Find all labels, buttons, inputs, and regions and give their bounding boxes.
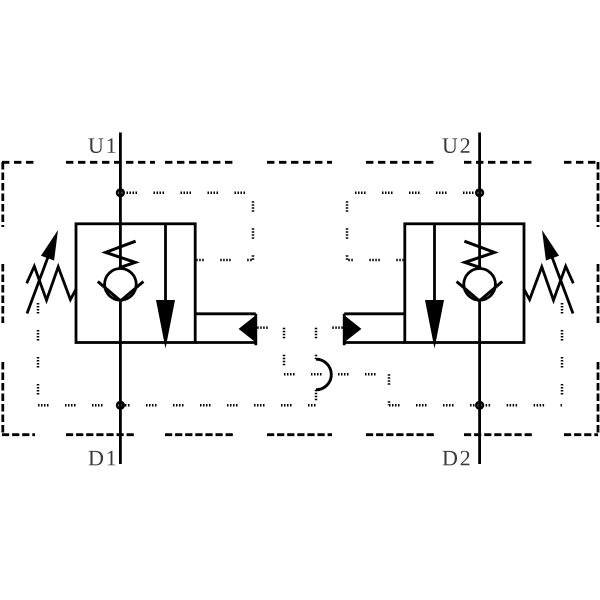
valve V1 body box — [76, 224, 195, 343]
valve V2 adjustment arrow shaft — [551, 253, 574, 314]
enclosure dashed boundary left — [1, 162, 4, 436]
valve V1 pilot port arrow — [239, 315, 256, 342]
node D1 junction — [117, 402, 124, 409]
valve V1 flow arrowhead — [156, 300, 175, 349]
pilot line V2 remote pilot to D1 — [316, 328, 343, 406]
pilot line crossover hop arc — [316, 359, 331, 390]
enclosure dashed boundary bottom — [2, 433, 598, 436]
valve V1 relief spring — [27, 266, 77, 300]
port label D1 — [89, 451, 116, 466]
valve V1 check seat — [98, 282, 144, 301]
wire D2 line lower — [478, 301, 481, 464]
valve V1 flow arrow shaft — [164, 224, 167, 302]
valve V2 pilot port arrow — [344, 315, 361, 342]
valve V2 adjustment arrowhead — [542, 230, 559, 261]
pilot line bottom left run — [38, 404, 316, 407]
wire U2 line upper — [478, 133, 481, 269]
node D2 junction — [476, 402, 483, 409]
port label U2 — [442, 138, 469, 153]
pilot line V1 remote pilot to D2 — [257, 328, 479, 406]
pilot line V1 relief drain — [37, 303, 40, 405]
pilot line V2 relief drain — [561, 303, 564, 405]
valve V2 flow arrowhead — [425, 300, 444, 349]
wire U1 line upper — [119, 133, 122, 269]
port label D2 — [443, 451, 470, 466]
pilot line bottom right run — [480, 404, 562, 407]
valve V1 pilot channel — [195, 314, 256, 346]
valve V2 body box — [405, 224, 524, 343]
pilot line U2 node to V2 spring chamber — [347, 193, 474, 260]
valve V1 adjustment arrowhead — [41, 230, 58, 261]
pilot line U1 node to V1 spring chamber — [127, 193, 254, 260]
enclosure dashed boundary top — [2, 161, 598, 164]
port label U1 — [88, 138, 115, 153]
valve V1 adjustment arrow shaft — [27, 253, 50, 314]
wire D1 line lower — [119, 301, 122, 464]
valve V2 check seat — [457, 282, 503, 301]
valve V2 flow arrow shaft — [433, 224, 436, 302]
valve V1 check ball circle — [105, 269, 137, 301]
node U2 junction — [476, 190, 483, 197]
valve V2 relief spring — [524, 266, 574, 300]
enclosure dashed boundary right — [597, 162, 600, 436]
valve V1 check spring — [106, 241, 136, 268]
valve V2 pilot channel — [344, 314, 405, 346]
node U1 junction — [117, 190, 124, 197]
valve V2 check ball circle — [464, 269, 496, 301]
valve V2 check spring — [464, 241, 494, 268]
